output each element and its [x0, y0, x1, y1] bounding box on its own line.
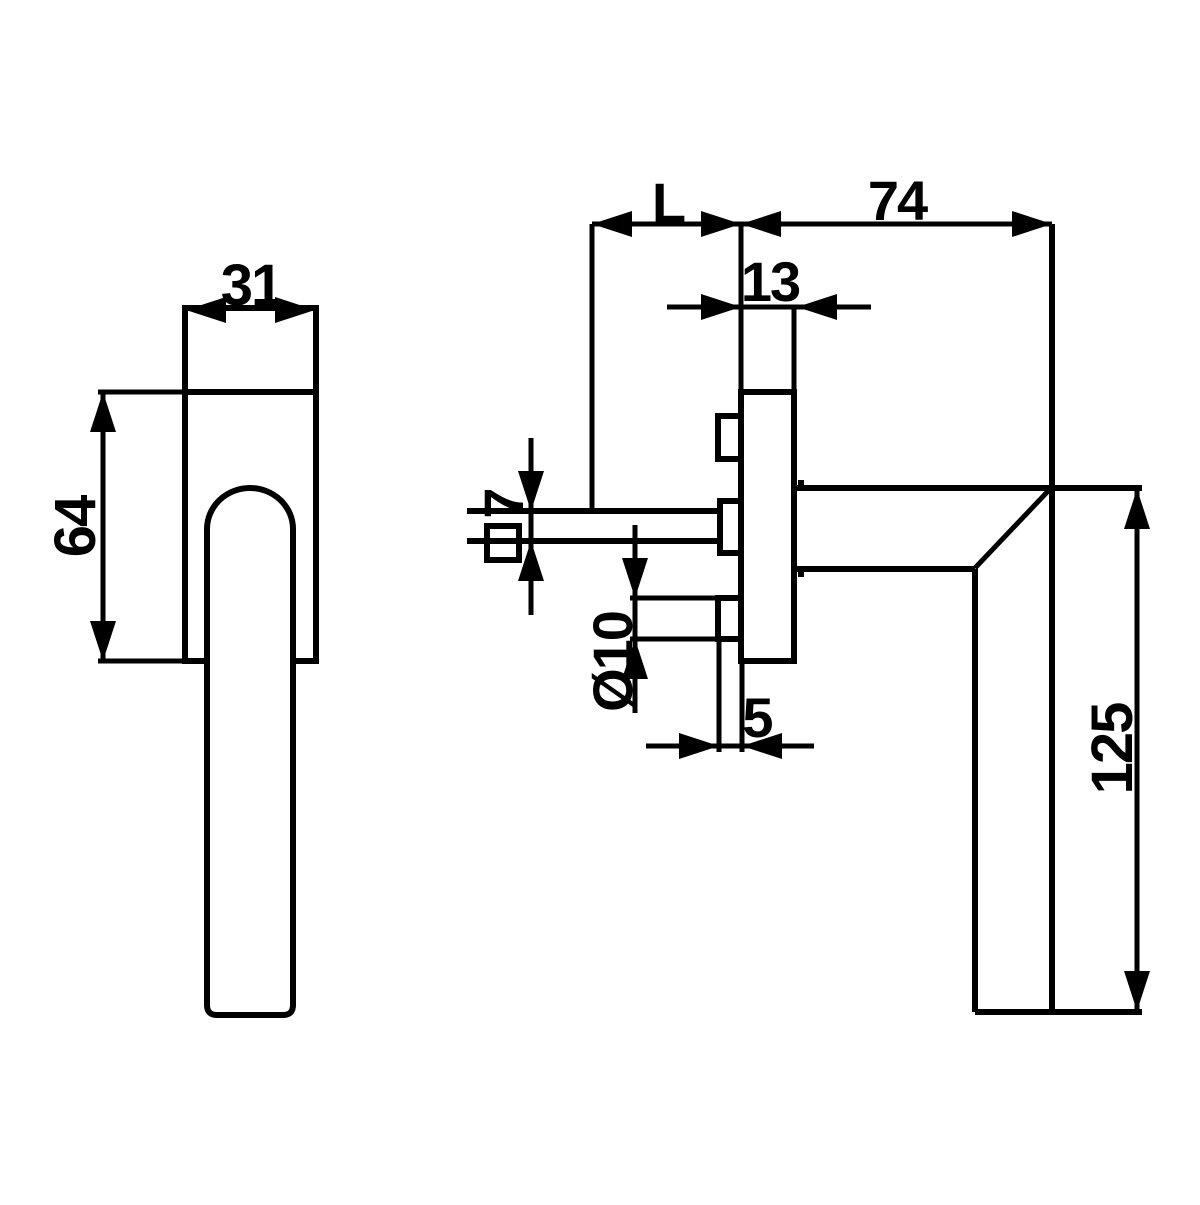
dim 5: dimension line: [646, 744, 814, 749]
dim 7: top arrowhead: [518, 471, 544, 511]
dim 125: bottom arrowhead: [1124, 971, 1150, 1011]
side view: neck top stub at plate: [798, 480, 804, 488]
side view: rose plate (13 deep): [741, 392, 794, 661]
dim 64: top arrowhead: [90, 392, 116, 432]
dim 64: extension line top: [98, 390, 185, 395]
side view: square spindle shaft top edge: [467, 508, 718, 514]
svg-text:74: 74: [868, 169, 928, 232]
dim 7: bottom arrowhead: [518, 541, 544, 581]
side view: handle neck top edge + 125 extension: [796, 485, 1142, 491]
dim 13: right arrowhead: [797, 294, 837, 320]
svg-text:31: 31: [221, 253, 282, 318]
side view: handle bar bottom edge + 125 extension: [975, 1009, 1142, 1015]
side view: handle neck bottom edge: [796, 566, 975, 572]
square-section symbol for spindle: [487, 526, 519, 560]
dim O10: extension line bottom: [630, 637, 718, 642]
side view: square spindle shaft bottom edge: [467, 538, 718, 544]
dim 5: extension line right: [740, 661, 745, 752]
front view: handle neck rectangle (31 wide): [185, 308, 316, 392]
dim 74: left arrowhead at plate: [741, 211, 781, 237]
dim 5: left arrowhead: [679, 733, 719, 759]
dim 64: extension line bottom: [98, 659, 185, 664]
side view: spindle collar: [720, 501, 741, 553]
dim L: extension line at spindle end: [590, 224, 595, 509]
side view: neck bottom stub at plate: [798, 569, 804, 577]
front view: rose plate rectangle (64 tall): [185, 392, 316, 661]
dim L/74: extension line at plate face: [739, 224, 744, 392]
dim 7: dimension line: [529, 438, 534, 615]
dim O10: bottom arrowhead: [622, 639, 648, 679]
side view: top fixing clip: [718, 416, 741, 459]
dim 125: top arrowhead: [1124, 489, 1150, 529]
dim L: right arrowhead at plate: [701, 211, 741, 237]
dim 125: dimension line: [1135, 490, 1140, 1010]
side view: bend miter edge line: [975, 488, 1051, 568]
dim O10: dimension line: [633, 525, 638, 713]
dim O10: top arrowhead: [622, 558, 648, 598]
dim O10: extension line top: [630, 596, 718, 601]
dim 64: bottom arrowhead: [90, 621, 116, 661]
svg-text:125: 125: [1080, 703, 1145, 795]
svg-text:7: 7: [472, 489, 535, 518]
dim 5: extension line left: [717, 640, 722, 752]
dim L: left arrowhead: [592, 211, 632, 237]
dim 13: left arrowhead: [701, 294, 741, 320]
dim 64: dimension line: [101, 392, 106, 661]
side view: handle bar inner left edge: [972, 569, 978, 1012]
svg-text:64: 64: [43, 495, 108, 557]
dim 13: dimension line: [667, 305, 871, 310]
side view: bottom fixing boss (O10): [718, 598, 741, 639]
dim 5: right arrowhead: [742, 733, 782, 759]
dim 31: right arrowhead: [275, 297, 315, 323]
dim 31: left arrowhead: [186, 297, 226, 323]
side view: handle bar outer right edge + 74 extension: [1049, 224, 1055, 1012]
dim 13: extension line at plate back: [792, 307, 797, 392]
svg-text:5: 5: [742, 686, 772, 749]
front view: handle grip lever (rounded top): [207, 488, 293, 1015]
svg-text:Ø10: Ø10: [581, 612, 644, 712]
dim 74: right arrowhead: [1012, 211, 1052, 237]
svg-text:L: L: [652, 171, 685, 234]
svg-text:13: 13: [741, 250, 800, 313]
dim L/74: dimension line: [592, 222, 1052, 227]
